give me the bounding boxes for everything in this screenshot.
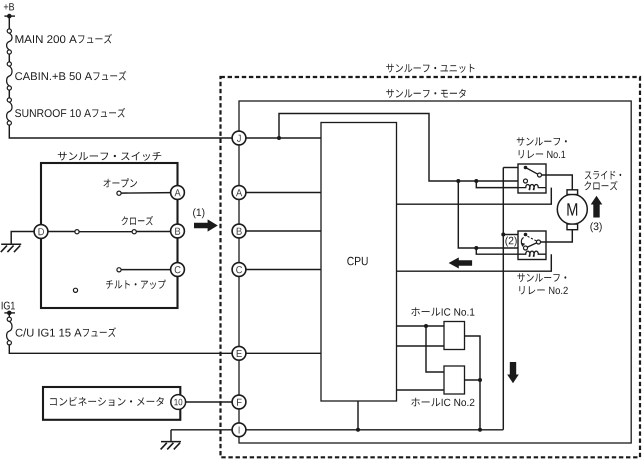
label MAIN 200 A fuse	[16, 34, 112, 44]
fuse CABIN.+B 50A	[7, 62, 12, 90]
junction CPU ground	[356, 428, 360, 432]
switch blade close	[79, 231, 132, 233]
sunroof motor box	[239, 101, 631, 443]
connector I unit	[232, 423, 246, 437]
junction +B rail 1	[456, 179, 460, 183]
wire feed to hall2	[426, 326, 444, 372]
wire IG1 to fuse	[8, 313, 10, 317]
terminal +B (dot with tick)	[4, 14, 15, 19]
ground unit	[161, 442, 181, 450]
motor M circle	[557, 194, 587, 224]
wire fuse CABIN to fuse SUNROOF	[8, 90, 10, 98]
terminal 10 of meter	[171, 395, 186, 410]
sunroof unit box (dashed)	[221, 77, 641, 457]
wire I ground rail	[246, 429, 504, 431]
connector J unit	[232, 131, 246, 145]
relay U2 box	[518, 231, 546, 260]
label close line2	[584, 181, 617, 190]
connector E unit	[232, 346, 246, 360]
wire open contact to A	[121, 192, 171, 195]
fuse C/U IG1 15A	[7, 317, 12, 345]
junction J branch	[277, 136, 281, 140]
wire tilt contact to C	[121, 269, 171, 271]
wire D to close contact	[48, 231, 75, 233]
label C/U IG1 15 A fuse	[16, 327, 116, 337]
label CPU	[347, 257, 367, 266]
wire relay2 common	[503, 234, 518, 236]
wire relay1 coil feed	[476, 181, 518, 188]
wire B to CPU	[246, 230, 321, 232]
label open	[104, 178, 138, 187]
relay U2 contact NC	[537, 240, 541, 244]
wire D to ground	[11, 232, 34, 245]
wire meter 10 to connector F	[186, 401, 233, 403]
wire CPU to hall1 pin2	[397, 345, 445, 347]
wire relay2 to motor	[541, 230, 573, 242]
wire CPU to relay2 coil	[397, 254, 552, 271]
connector C switch	[171, 263, 185, 277]
wire fuse MAIN to fuse CABIN	[8, 54, 10, 62]
junction hall2 out	[478, 378, 482, 382]
connector D switch	[34, 225, 48, 239]
arrow (1) right	[194, 219, 218, 231]
contact open	[117, 191, 121, 195]
wire CPU to relay1 coil	[397, 188, 552, 205]
wire C to CPU	[246, 269, 321, 271]
relay U1 coil	[518, 184, 546, 190]
wire A to CPU	[246, 192, 321, 194]
label sunroof motor	[386, 89, 466, 98]
contact spare	[73, 288, 77, 292]
label sunroof unit	[386, 64, 474, 73]
label (1)	[193, 208, 204, 218]
relay U2 coil	[518, 251, 546, 257]
relay U2 arm released (dashed)	[528, 236, 537, 241]
label sunroof relay No.1 line2	[519, 150, 566, 158]
wire rail to relay2 contact	[458, 181, 518, 248]
label sunroof relay No.2 line2	[519, 286, 567, 294]
contact close left	[75, 230, 79, 234]
wire hall2 out	[465, 380, 481, 430]
relay U1 pivot	[524, 166, 528, 170]
CPU box	[321, 123, 397, 402]
relay U2 arm actuated	[527, 243, 536, 247]
relay U1 box	[518, 164, 546, 193]
wire ground to connector I	[171, 430, 232, 442]
arrow drive left	[449, 257, 473, 268]
junction relay2 contact branch	[474, 246, 478, 250]
terminal IG1 (dot with tick)	[4, 311, 15, 316]
wire CPU bottom to ground rail	[357, 401, 359, 430]
connector A unit	[232, 186, 246, 200]
node IG1 label	[2, 302, 15, 310]
wire CPU to hall2 pin2	[397, 389, 445, 391]
motor terminal bottom	[567, 224, 578, 230]
label close	[122, 216, 154, 225]
node +B label	[4, 3, 14, 10]
connector A switch	[171, 186, 185, 200]
hall IC No.2 box	[444, 366, 465, 394]
relay U2 actuation arrow	[521, 238, 526, 247]
fuse SUNROOF 10A	[7, 98, 12, 125]
wire fuse to connector E	[9, 345, 232, 353]
contact tilt	[117, 268, 121, 272]
junction hall feed	[424, 324, 428, 328]
combination meter box	[43, 387, 180, 420]
label tilt-up	[106, 280, 166, 290]
relay U1 arm	[526, 168, 538, 175]
wire relay2 coil feed	[476, 248, 518, 254]
wire J branch to relays (+B rail)	[279, 114, 518, 182]
arrow pulse down	[507, 362, 519, 383]
contact close right	[132, 230, 136, 234]
junction +B rail 2	[474, 179, 478, 183]
label sunroof relay No.2 line1	[517, 273, 566, 282]
wire hall1 out	[465, 336, 481, 380]
ground switch	[1, 244, 21, 252]
junction hall ground	[478, 428, 482, 432]
wire relay1 common	[503, 167, 518, 169]
relay U2 contact NO	[524, 246, 528, 250]
fuse MAIN 200A	[7, 29, 12, 54]
motor terminal top	[567, 190, 578, 195]
connector F unit	[232, 395, 246, 409]
wire close contact to B	[136, 231, 171, 233]
wire J to CPU	[246, 137, 321, 139]
label hall IC No.1	[411, 307, 474, 316]
label combination meter	[50, 397, 164, 406]
wire CPU to hall1 pin1	[397, 325, 445, 327]
junction relay2 common	[501, 233, 505, 237]
wire relay1 to motor	[542, 175, 573, 190]
label (2)	[505, 237, 516, 247]
label CABIN.+B 50 A fuse	[15, 71, 126, 81]
relay U1 contact NC	[538, 173, 542, 177]
wire +B terminal to fuse MAIN	[8, 16, 10, 29]
wire relay commons to ground rail	[502, 168, 504, 430]
label slide line1	[585, 171, 621, 180]
label SUNROOF 10 A fuse	[15, 108, 125, 118]
connector C unit	[232, 263, 246, 277]
connector B unit	[232, 224, 246, 238]
relay U1 contact NO	[524, 179, 528, 183]
arrow (3) up	[591, 196, 603, 218]
connector B switch	[171, 224, 185, 238]
label hall IC No.2	[411, 398, 474, 407]
wire E to CPU	[246, 352, 321, 354]
wire fuse SUNROOF to connector J	[9, 125, 232, 138]
hall IC No.1 box	[444, 322, 465, 350]
label (3)	[590, 222, 601, 232]
label sunroof relay No.1 line1	[517, 137, 567, 146]
relay U2 pivot	[524, 233, 528, 237]
switch box	[41, 163, 178, 308]
label sunroof switch	[58, 152, 161, 161]
